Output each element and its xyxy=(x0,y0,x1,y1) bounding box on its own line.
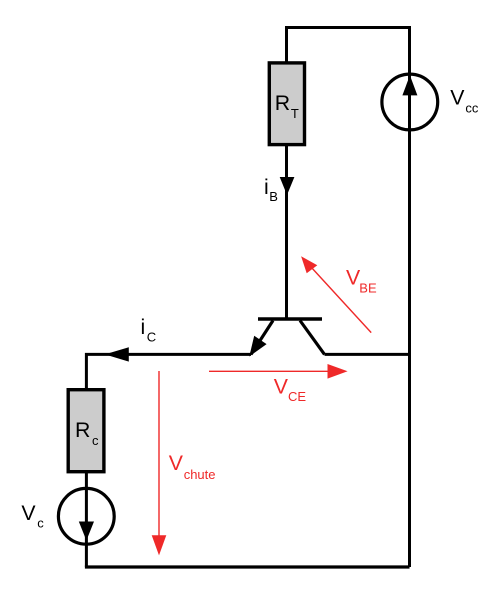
svg-text:CE: CE xyxy=(288,389,306,404)
svg-text:T: T xyxy=(291,106,299,121)
resistor R_c xyxy=(68,390,104,472)
svg-text:cc: cc xyxy=(465,101,479,116)
svg-text:B: B xyxy=(269,189,278,204)
svg-text:C: C xyxy=(147,329,156,344)
wire bottom xyxy=(85,565,410,568)
transistor Q1 base bar xyxy=(258,317,322,320)
current arrow i_C xyxy=(105,347,129,361)
svg-text:V: V xyxy=(450,86,465,110)
transistor Q1 collector xyxy=(300,321,325,355)
wire collector horizontal xyxy=(325,353,410,356)
svg-text:i: i xyxy=(264,175,269,199)
voltage arrow V_CE xyxy=(209,370,330,372)
svg-text:c: c xyxy=(37,515,44,530)
svg-text:R: R xyxy=(75,418,90,442)
source V_c xyxy=(58,488,114,544)
current arrow i_B xyxy=(280,177,295,195)
svg-text:R: R xyxy=(275,91,290,115)
voltage arrow V_BE xyxy=(306,261,372,333)
wire top horizontal xyxy=(287,28,410,75)
svg-text:V: V xyxy=(21,501,36,525)
svg-text:i: i xyxy=(141,315,146,339)
wire emitter horizontal xyxy=(86,354,251,389)
transistor Q1 emitter xyxy=(251,321,273,355)
resistor R_T xyxy=(269,63,304,145)
svg-text:BE: BE xyxy=(359,281,377,296)
wire base vertical (resistor to transistor base) xyxy=(285,146,288,319)
wire left rail lower xyxy=(85,472,88,568)
voltage arrow V_chute xyxy=(158,371,160,538)
svg-text:V: V xyxy=(274,374,289,398)
svg-text:chute: chute xyxy=(184,467,216,482)
source V_cc xyxy=(382,74,438,130)
svg-text:c: c xyxy=(92,433,99,448)
svg-text:V: V xyxy=(169,451,184,475)
wire right rail xyxy=(408,130,411,567)
